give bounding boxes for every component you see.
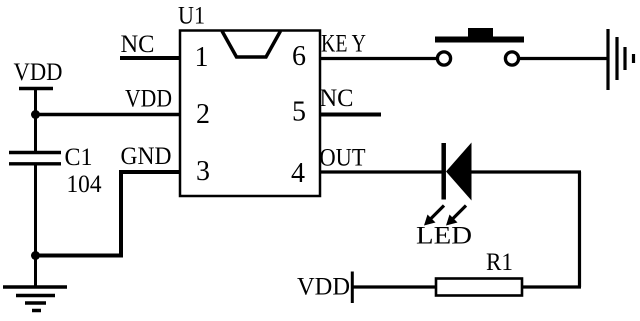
- LED arrow 2: [446, 206, 466, 226]
- wire VDD rail down: [34, 89, 37, 153]
- svg-text:104: 104: [67, 169, 102, 198]
- wire port to resistor: [353, 285, 436, 288]
- svg-text:GND: GND: [121, 141, 172, 170]
- svg-text:1: 1: [195, 42, 209, 73]
- IC U1 body: [180, 31, 320, 197]
- wire to resistor: [522, 285, 581, 288]
- svg-text:5: 5: [292, 97, 306, 128]
- svg-text:KE Y: KE Y: [321, 29, 366, 58]
- wire pin4 to LED: [320, 170, 442, 173]
- LED D1 cathode bar: [441, 143, 446, 200]
- svg-text:4: 4: [291, 158, 305, 189]
- switch S (pushbutton): [437, 52, 450, 65]
- wire pin2 VDD: [33, 113, 180, 117]
- wire pin6 to switch: [320, 57, 438, 60]
- wire down to ground: [34, 256, 37, 288]
- svg-text:R1: R1: [486, 247, 513, 276]
- svg-text:NC: NC: [121, 29, 155, 58]
- svg-text:6: 6: [292, 41, 306, 72]
- wire corner down: [578, 172, 581, 287]
- LED arrow 1: [424, 206, 444, 226]
- LED D1 triangle: [446, 143, 472, 201]
- svg-text:VDD: VDD: [297, 271, 350, 300]
- port tick VDD: [351, 272, 354, 304]
- resistor R1: [436, 279, 522, 296]
- svg-text:2: 2: [196, 99, 210, 130]
- ground (bottom-left): [3, 285, 67, 289]
- wire LED anode to corner: [472, 170, 582, 173]
- capacitor C1: [9, 151, 61, 154]
- wire switch to ground: [518, 57, 608, 60]
- wire pin5 NC stub: [320, 113, 381, 117]
- junction dot pin2 tee: [31, 110, 40, 119]
- svg-text:OUT: OUT: [320, 143, 366, 172]
- svg-text:VDD: VDD: [125, 84, 172, 113]
- svg-text:VDD: VDD: [14, 57, 63, 86]
- svg-text:LED: LED: [416, 220, 472, 249]
- svg-text:U1: U1: [178, 1, 205, 30]
- junction dot bottom-left corner: [31, 251, 40, 260]
- svg-text:NC: NC: [320, 83, 354, 112]
- wire pin3 GND: [35, 172, 180, 256]
- wire cap bottom down: [34, 165, 37, 257]
- wire pin1 NC stub: [120, 56, 180, 60]
- IC U1 pin-1 notch: [222, 31, 281, 57]
- svg-text:3: 3: [196, 156, 210, 187]
- ground (right, rotated): [606, 29, 609, 90]
- svg-text:C1: C1: [65, 142, 93, 171]
